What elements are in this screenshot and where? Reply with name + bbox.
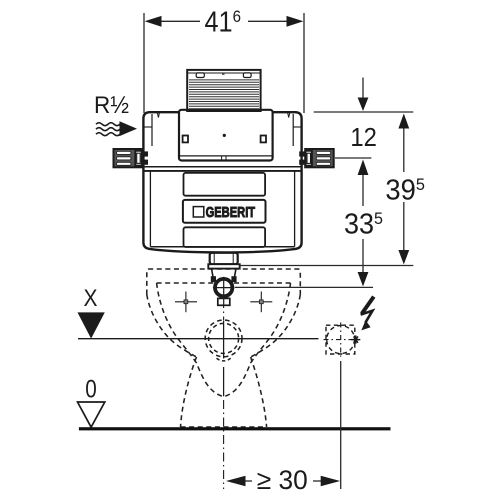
panel outline bbox=[179, 110, 273, 161]
left clip slot bbox=[196, 73, 204, 78]
left top notch bbox=[157, 113, 159, 118]
feet bbox=[218, 298, 230, 305]
trap crosshair vertical bbox=[223, 320, 225, 396]
pedestal side left bbox=[181, 357, 197, 427]
lower-right inner vertical bbox=[294, 171, 296, 247]
crosshair bbox=[213, 287, 235, 289]
dim 39.5 line bbox=[403, 127, 405, 172]
panel 1 bbox=[184, 173, 266, 196]
X triangle bbox=[78, 312, 105, 338]
svg-text:0: 0 bbox=[85, 375, 97, 403]
dim 12 upper tail bbox=[362, 78, 364, 99]
left arrow bbox=[145, 16, 162, 27]
logo square bbox=[193, 207, 204, 217]
right clip square bbox=[261, 136, 266, 143]
left bracket bbox=[114, 149, 149, 167]
panel 3 bbox=[184, 227, 266, 247]
foot base bbox=[181, 426, 267, 428]
dim 33.5 line bbox=[362, 174, 364, 206]
arrow down to y112 bbox=[358, 98, 369, 112]
center tick bbox=[222, 73, 225, 75]
right top notch bbox=[288, 113, 290, 118]
top-right inner vertical bbox=[292, 114, 294, 146]
side hooks bbox=[211, 276, 216, 282]
right arrow bbox=[321, 476, 341, 487]
panel 2 (logo) bbox=[183, 200, 266, 223]
right arrow bbox=[287, 16, 304, 27]
left extension line bbox=[143, 13, 145, 113]
svg-text:GEBERIT: GEBERIT bbox=[206, 205, 256, 221]
right extension line bbox=[303, 13, 305, 113]
ball ring bbox=[215, 279, 232, 296]
right clip slot bbox=[243, 73, 251, 78]
arrow down to y265.5 (39.5) bbox=[398, 250, 409, 265]
0 triangle bbox=[78, 402, 105, 427]
center dot bbox=[223, 134, 226, 137]
inner bowl curve left into U bbox=[157, 283, 224, 397]
inner shell top line bbox=[157, 282, 291, 284]
fixing cross left bbox=[175, 292, 197, 313]
collar bbox=[208, 264, 239, 268]
ref line y287.4 bbox=[235, 286, 373, 288]
right bracket bbox=[299, 149, 334, 167]
trap outer circle bbox=[205, 320, 242, 357]
arrow down to y287.4 bbox=[358, 272, 369, 286]
bottom bar ticks bbox=[221, 156, 223, 160]
ref line bracket (y158) bbox=[335, 157, 371, 159]
ref line y265.5 bbox=[240, 265, 413, 267]
dashed circle bbox=[327, 326, 355, 354]
svg-text:12: 12 bbox=[350, 124, 377, 152]
pedestal side right bbox=[251, 357, 267, 427]
svg-text:R½: R½ bbox=[94, 92, 129, 119]
trap inner circle bbox=[209, 323, 239, 353]
arrow up to y158 bbox=[358, 160, 369, 176]
joint line lower bbox=[143, 170, 301, 172]
outer bowl curve left bbox=[147, 295, 197, 358]
inner bowl curve right into U bbox=[224, 283, 291, 397]
dim line right segment bbox=[248, 20, 288, 22]
arrow up to y112 (39.5) bbox=[398, 114, 409, 129]
nut bbox=[210, 253, 238, 264]
ref line top (y112) bbox=[314, 111, 414, 113]
svg-text:≥ 30: ≥ 30 bbox=[257, 465, 308, 495]
neck sides bbox=[212, 268, 237, 277]
box outline bbox=[187, 70, 260, 111]
center line (dash-dot) bbox=[223, 299, 225, 489]
outer mounting rect top bbox=[147, 269, 300, 295]
lower-left inner vertical bbox=[149, 171, 151, 247]
left arrow bbox=[226, 476, 246, 487]
trap socket arc bbox=[217, 358, 231, 361]
hatch lines bbox=[189, 80, 259, 109]
left tick bbox=[143, 126, 152, 128]
fixing cross right bbox=[250, 292, 272, 313]
outer bowl curve right bbox=[251, 295, 301, 358]
outer body outline bbox=[143, 112, 301, 252]
inner bottom line bbox=[150, 246, 294, 248]
X level line bbox=[78, 338, 319, 340]
left clip square bbox=[183, 136, 188, 143]
top-left inner vertical bbox=[151, 114, 153, 146]
lightning bolt bbox=[362, 297, 374, 314]
crosshair dash-dot bbox=[324, 323, 359, 357]
connection star bbox=[351, 336, 360, 344]
dashed square bbox=[326, 325, 355, 354]
joint line upper bbox=[143, 166, 301, 168]
inner top line bbox=[187, 72, 260, 74]
dim line left segment bbox=[160, 20, 200, 22]
panel bottom bar line bbox=[180, 155, 272, 157]
wavy lines bbox=[96, 123, 120, 136]
electrical vertical line bbox=[340, 361, 342, 489]
floor line bbox=[79, 427, 391, 430]
supply arrow bbox=[120, 121, 138, 136]
right tick bbox=[293, 126, 301, 128]
svg-text:X: X bbox=[84, 285, 98, 312]
